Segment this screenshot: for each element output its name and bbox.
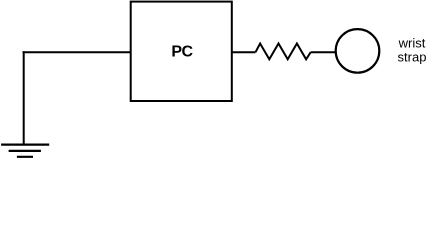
wire resistor to wrist strap xyxy=(311,51,336,53)
wire left vertical (down to ground) xyxy=(23,51,25,144)
PC box U1 xyxy=(131,2,232,101)
wire right (PC to resistor) xyxy=(232,51,256,53)
resistor R1 xyxy=(256,44,311,60)
wire left horizontal (PC to ground drop) xyxy=(23,51,131,53)
svg-text:wrist: wrist xyxy=(398,36,426,51)
svg-text:strap: strap xyxy=(398,49,427,64)
wrist strap loop xyxy=(336,29,380,73)
svg-text:PC: PC xyxy=(171,44,193,61)
ground xyxy=(1,145,49,157)
